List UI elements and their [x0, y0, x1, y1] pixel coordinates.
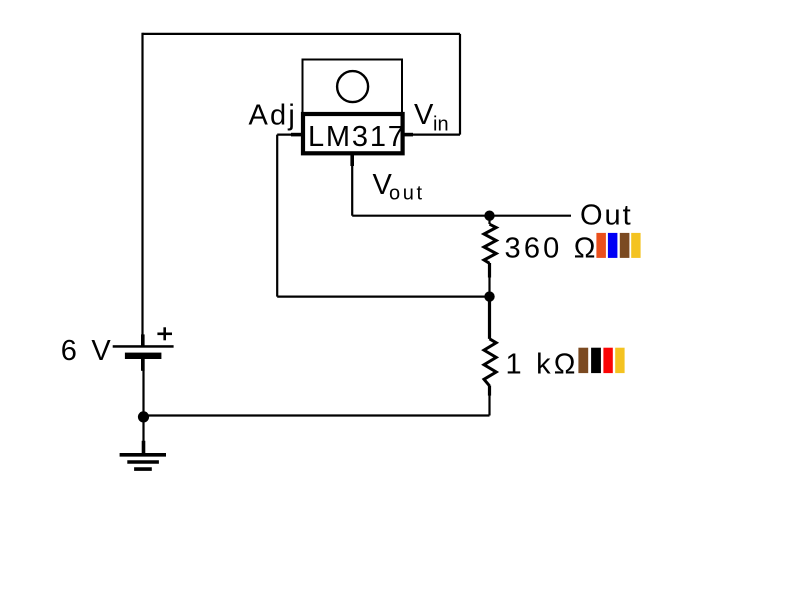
svg-text:Out: Out	[580, 199, 633, 231]
svg-text:Adj: Adj	[249, 99, 298, 131]
svg-text:LM317: LM317	[308, 121, 406, 153]
svg-text:in: in	[433, 113, 449, 135]
svg-text:6 V: 6 V	[61, 335, 114, 367]
svg-text:V: V	[414, 99, 434, 131]
svg-text:1 kΩ: 1 kΩ	[506, 348, 579, 380]
svg-text:360 Ω: 360 Ω	[505, 233, 599, 265]
svg-text:out: out	[389, 183, 425, 205]
